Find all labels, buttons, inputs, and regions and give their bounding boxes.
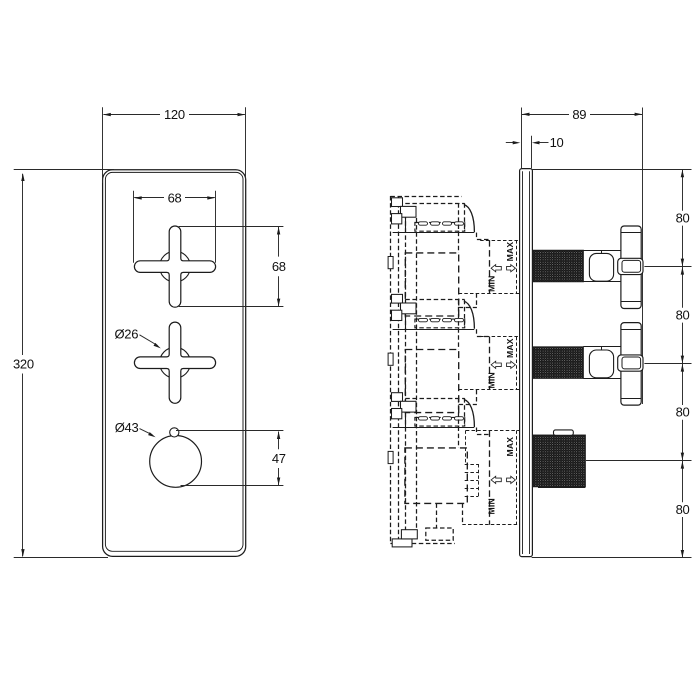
adjustment range bottom dashed line: [462, 524, 519, 526]
adjustment range bottom dashed line: [459, 389, 519, 391]
front view plate inner bevel line: [105, 172, 243, 551]
handle 2 base circle (front): [160, 347, 191, 378]
svg-text:MIN: MIN: [486, 276, 496, 292]
handle 1 cross (front): [134, 226, 215, 307]
valve module 2 box right edge dashed extension: [458, 300, 460, 350]
handle 1 crossbar (side): [621, 226, 641, 309]
svg-text:120: 120: [164, 107, 185, 122]
MIN position dashed line: [489, 240, 491, 293]
dimension 80 chain line: [682, 170, 684, 211]
dimension 68v line: [278, 227, 280, 257]
temperature knob circle (front): [150, 436, 202, 488]
handle 2 centerline extension: [644, 363, 691, 365]
handle 1 base circle (front): [160, 251, 191, 282]
valve module 3 dashed body box: [405, 448, 467, 504]
handle 2 hub: [589, 350, 613, 378]
adjustment range top dashed line: [480, 240, 519, 242]
valve module 2 threaded bar dashed: [415, 319, 465, 328]
temperature knob top tab: [554, 430, 574, 435]
valve module 1 dashed top line: [405, 203, 464, 205]
svg-text:80: 80: [676, 308, 690, 323]
handle 2 cross (front): [134, 322, 215, 403]
adjustment arrows: [491, 265, 501, 272]
valve module 1 left notch solid: [388, 257, 393, 269]
adjustment range top dashed line: [466, 430, 519, 432]
valve module 3 sleeve solid curve: [464, 399, 475, 427]
valve module 1 left stubs solid: [392, 198, 403, 207]
svg-text:MAX: MAX: [505, 242, 515, 262]
svg-text:89: 89: [572, 107, 586, 122]
valve module 2 dashed top line: [405, 299, 464, 301]
module 3 lower connector dashed: [436, 503, 438, 528]
dimension 47 extension lines: [176, 430, 283, 432]
side view wall plate slab inner lines: [522, 171, 524, 554]
handle 1 centerline extension: [644, 266, 691, 268]
svg-text:Ø43: Ø43: [115, 420, 139, 435]
valve module 1 dashed step to plate: [476, 233, 478, 240]
valve module 3 sleeve dashed edge: [464, 398, 466, 426]
valve module 1 left bracket solid lines: [405, 206, 407, 232]
dimension 68h line: [134, 197, 164, 199]
knob indicator pin (front): [170, 428, 179, 437]
handle 2 end cap: [618, 355, 643, 371]
handle 1 knurled cylinder (side): [533, 250, 583, 281]
svg-text:MAX: MAX: [505, 338, 515, 358]
dimension 10 arrows: [506, 142, 514, 144]
valve module 3 left notch solid: [388, 451, 393, 463]
bottom outlet stub dashed: [426, 528, 453, 540]
valve module 2 left bracket solid lines: [405, 303, 407, 329]
svg-text:80: 80: [676, 502, 690, 517]
handle 1 end cap: [618, 258, 643, 274]
valve module 2 sleeve dashed edge: [464, 300, 466, 328]
valve module 1 sleeve solid curve: [464, 205, 475, 233]
adjustment arrows: [491, 361, 501, 368]
temperature knob knurled cylinder (side): [533, 435, 585, 487]
adjustment range bottom dashed line: [459, 293, 519, 295]
svg-text:MIN: MIN: [486, 498, 496, 514]
bottom-left solid foot: [392, 539, 412, 547]
adjustment arrows: [491, 476, 501, 483]
dimension 10 extension line: [531, 136, 533, 169]
valve module 2 left notch solid: [388, 353, 393, 365]
valve module 3 box right edge dashed extension: [458, 398, 460, 448]
svg-text:68: 68: [168, 190, 182, 205]
handle 1 hub: [589, 253, 613, 281]
dimension 89 line: [522, 114, 569, 116]
valve module 1 dashed bottom step: [476, 293, 478, 307]
adjustment range top dashed line: [480, 336, 519, 338]
side view wall plate slab outer: [520, 169, 533, 557]
temperature knob foot line: [538, 487, 585, 489]
MIN position dashed line: [489, 430, 491, 524]
handle 2 smooth cylinder lines: [583, 346, 621, 348]
handle 1 smooth cylinder lines: [583, 250, 621, 252]
valve module 2 sleeve solid curve: [464, 301, 475, 329]
valve module 3 dashed step to plate: [476, 428, 478, 435]
rough-in box bottom dashed line: [390, 543, 455, 545]
MAX position dashed line: [516, 337, 518, 390]
dimension 68h extension lines: [133, 191, 135, 263]
valve module 3 left bracket solid lines: [405, 401, 407, 427]
rough-in box top dashed line: [390, 196, 461, 198]
valve module 1 solid line below bar: [393, 232, 475, 234]
handle 2 crossbar (side): [621, 323, 641, 406]
dimension 89 extension lines: [521, 108, 523, 169]
MAX position dashed line: [516, 430, 518, 524]
dimension 68v extension lines: [179, 226, 284, 228]
dimension 120 line: [103, 114, 160, 116]
valve module 1 box right edge dashed extension: [458, 203, 460, 253]
label D26 leader: [140, 335, 158, 346]
valve module 1 threaded bar dashed: [415, 223, 465, 232]
valve module 3 threaded bar dashed: [415, 417, 465, 426]
MAX position dashed line: [516, 240, 518, 293]
svg-text:MAX: MAX: [505, 437, 515, 457]
svg-text:80: 80: [676, 405, 690, 420]
valve module 2 solid line below bar: [393, 329, 475, 331]
valve module 3 dashed top line: [405, 398, 464, 400]
valve module 1 sleeve dashed edge: [464, 203, 466, 231]
dimension 47 line: [278, 432, 280, 450]
svg-text:10: 10: [550, 135, 564, 150]
dimension 320 line: [22, 174, 24, 355]
module 3 upper dashed edge: [465, 430, 467, 464]
MIN position dashed line: [489, 337, 491, 390]
valve module 2 dashed step to plate: [476, 329, 478, 336]
svg-text:320: 320: [13, 357, 34, 372]
handle 2 knurled cylinder (side): [533, 347, 583, 378]
dimension 120 extension lines: [102, 107, 104, 183]
svg-text:Ø26: Ø26: [114, 326, 138, 341]
module 3 box-to-range dashed edge: [462, 503, 464, 524]
svg-text:47: 47: [272, 451, 286, 466]
valve module 2 dashed bottom step: [476, 390, 478, 404]
module 3 adjuster rack dashed steps: [478, 464, 480, 496]
knob centerline extension: [586, 460, 692, 462]
side bottom extension line: [532, 557, 692, 559]
front view plate outer contour: [103, 170, 246, 557]
valve module 2 dashed body box: [405, 350, 458, 413]
valve module 3 left stubs solid: [392, 393, 403, 402]
rough-in box back dashed lines: [390, 196, 392, 543]
svg-text:80: 80: [676, 210, 690, 225]
valve module 2 left stubs solid: [392, 294, 403, 303]
svg-text:MIN: MIN: [486, 372, 496, 388]
side top extension line: [532, 169, 691, 171]
label D43 leader: [140, 429, 153, 435]
svg-text:68: 68: [272, 259, 286, 274]
valve module 1 dashed body box: [405, 253, 458, 316]
dimension 320 extension lines: [14, 169, 114, 171]
valve module 3 solid line below bar: [393, 427, 475, 429]
